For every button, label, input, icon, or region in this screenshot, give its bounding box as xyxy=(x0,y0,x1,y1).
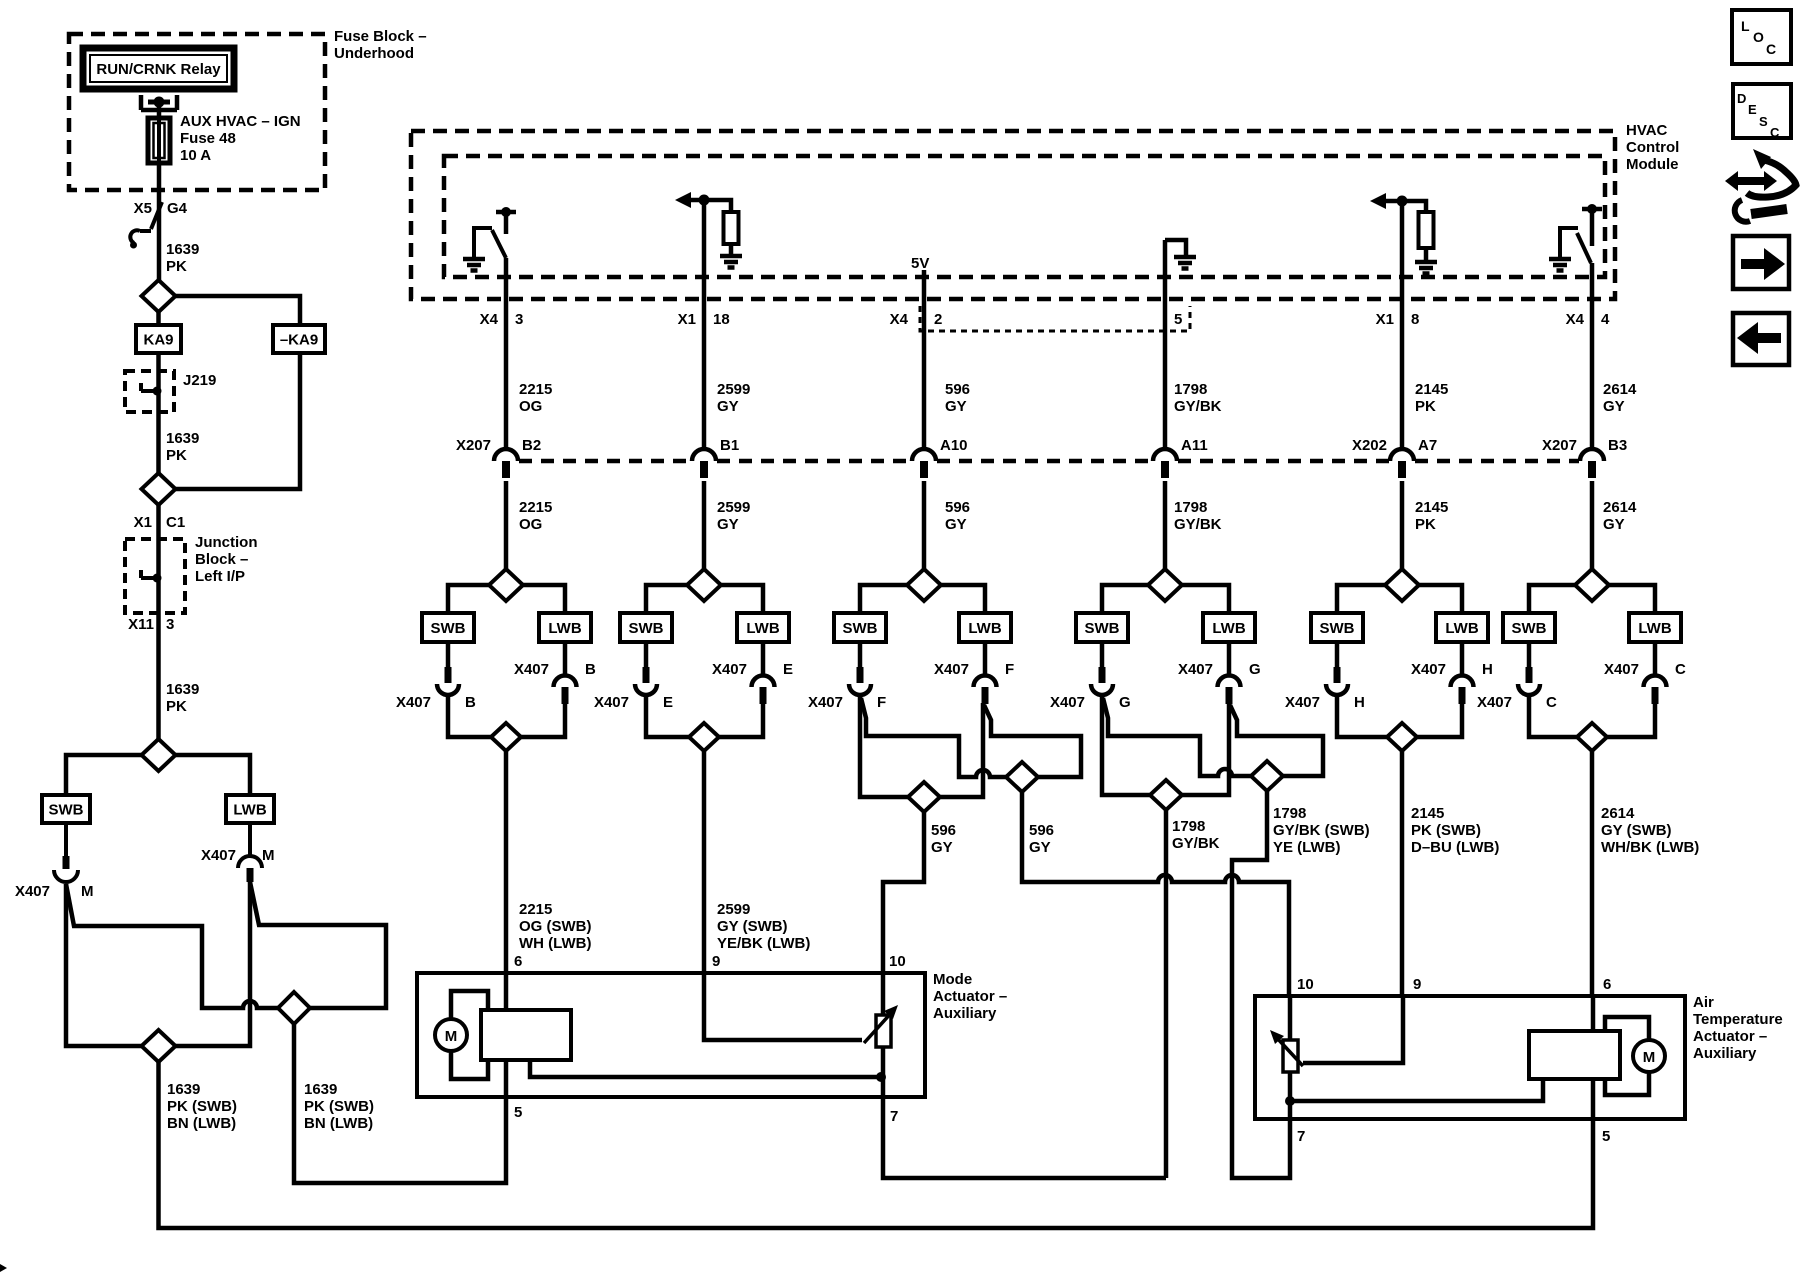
wire SWB-H to merge diamond col6 xyxy=(1337,694,1387,737)
connector X407-B SWB half xyxy=(446,642,451,667)
wire column 2 module to connector row xyxy=(504,258,509,451)
icon back arrow box xyxy=(1733,313,1789,365)
svg-text:WH (LWB): WH (LWB) xyxy=(519,935,591,952)
air temp gearbox low lead xyxy=(1290,1079,1543,1101)
svg-text:A11: A11 xyxy=(1181,437,1208,454)
split diamond column 5 xyxy=(1148,569,1182,601)
connector A11 arc xyxy=(1153,449,1177,461)
air temp pin 10 to pot xyxy=(1288,996,1293,1040)
svg-text:PK: PK xyxy=(166,698,187,715)
option LWB box col5 xyxy=(1203,613,1255,642)
svg-text:BN (LWB): BN (LWB) xyxy=(304,1115,373,1132)
wire split to LWB col5 xyxy=(1182,585,1229,613)
svg-text:4: 4 xyxy=(1601,311,1610,328)
merge diamond column 2 xyxy=(491,723,521,751)
wire 2599 to mode actuator pin 9 xyxy=(702,751,707,973)
svg-text:1639: 1639 xyxy=(167,1081,200,1098)
svg-text:X202: X202 xyxy=(1352,437,1387,454)
wire KA9 through J219 to splice S2 xyxy=(156,353,161,473)
svg-text:GY/BK: GY/BK xyxy=(1172,835,1220,852)
wire S4 to air temp actuator pin 5 xyxy=(159,1062,1594,1228)
mode motor M1 top lead xyxy=(451,991,488,1019)
split diamond column 6 xyxy=(1385,569,1419,601)
junction block tap symbol xyxy=(141,570,157,578)
svg-text:X11: X11 xyxy=(128,616,154,633)
svg-text:LWB: LWB xyxy=(746,620,779,637)
wire column 7 module to connector row xyxy=(1590,263,1595,451)
module switch X4-4 dot xyxy=(1587,204,1597,214)
module ground at X4-4 switch xyxy=(1549,259,1571,271)
wire split to SWB col7 xyxy=(1529,585,1575,613)
svg-text:LWB: LWB xyxy=(1212,620,1245,637)
svg-text:M: M xyxy=(262,847,275,864)
splice diamond S4 xyxy=(142,1030,176,1062)
svg-text:X1: X1 xyxy=(1376,311,1394,328)
svg-text:GY: GY xyxy=(931,839,953,856)
svg-text:LWB: LWB xyxy=(548,620,581,637)
svg-text:5V: 5V xyxy=(911,255,929,272)
svg-text:Left I/P: Left I/P xyxy=(195,568,245,585)
icon DESC box xyxy=(1733,84,1791,138)
wire split to SWB col6 xyxy=(1337,585,1385,613)
option SWB box col3 xyxy=(620,613,672,642)
svg-text:2145: 2145 xyxy=(1411,805,1444,822)
split diamond column 4 xyxy=(907,569,941,601)
relay contact fuse clip symbol xyxy=(141,95,177,110)
svg-text:GY: GY xyxy=(1029,839,1051,856)
wire L5 to mode actuator pin 7 node xyxy=(1164,810,1169,1178)
svg-text:–KA9: –KA9 xyxy=(280,332,318,349)
module switch X4-4 contact bracket xyxy=(1560,228,1578,257)
svg-text:X407: X407 xyxy=(712,661,747,678)
svg-text:HVAC: HVAC xyxy=(1626,122,1668,139)
splice diamond S5 xyxy=(278,992,310,1024)
connector X407-G LWB half xyxy=(1218,642,1241,687)
connector X407-C SWB half xyxy=(1527,642,1532,667)
svg-text:X407: X407 xyxy=(1285,694,1320,711)
wire column 6 module to connector row xyxy=(1400,201,1405,451)
svg-text:C: C xyxy=(1675,661,1686,678)
svg-text:1798: 1798 xyxy=(1174,499,1207,516)
option LWB box col6 xyxy=(1436,613,1488,642)
wire fuse F48 to splice S1 xyxy=(157,163,162,280)
mode actuator gearbox to pin 5 xyxy=(504,1060,509,1097)
svg-text:X407: X407 xyxy=(1050,694,1085,711)
svg-text:5: 5 xyxy=(1602,1128,1610,1145)
svg-text:Auxiliary: Auxiliary xyxy=(933,1005,997,1022)
svg-text:M: M xyxy=(81,883,94,900)
svg-text:Temperature: Temperature xyxy=(1693,1011,1783,1028)
mode actuator pin 9 to wiper xyxy=(704,973,862,1040)
mode actuator potentiometer xyxy=(876,1015,891,1047)
air temp actuator gearbox xyxy=(1529,1031,1620,1079)
svg-text:X407: X407 xyxy=(1604,661,1639,678)
svg-text:C1: C1 xyxy=(166,514,185,531)
svg-text:9: 9 xyxy=(712,953,720,970)
svg-text:8: 8 xyxy=(1411,311,1419,328)
svg-text:B: B xyxy=(585,661,596,678)
svg-text:X207: X207 xyxy=(1542,437,1577,454)
svg-text:LWB: LWB xyxy=(1445,620,1478,637)
wire column 6 connector to split diamond xyxy=(1400,481,1405,570)
option SWB box col2 xyxy=(422,613,474,642)
svg-text:2599: 2599 xyxy=(717,901,750,918)
svg-text:5: 5 xyxy=(514,1104,522,1121)
svg-text:1798: 1798 xyxy=(1273,805,1306,822)
svg-text:18: 18 xyxy=(713,311,730,328)
connector A7 arc xyxy=(1390,449,1414,461)
wire mode actuator pin 7 run xyxy=(883,1097,1166,1178)
svg-text:SWB: SWB xyxy=(1085,620,1120,637)
connector B3 arc xyxy=(1580,449,1604,461)
J219 tap symbol xyxy=(141,383,157,391)
wire LWB-E to merge diamond col3 xyxy=(719,703,763,737)
mode actuator pin6-pin5 through wire xyxy=(504,973,509,1010)
module ground pin 5 xyxy=(1174,257,1196,269)
svg-text:X407: X407 xyxy=(594,694,629,711)
svg-text:GY/BK: GY/BK xyxy=(1174,516,1222,533)
module ground at X4-3 switch xyxy=(463,259,485,271)
svg-text:X407: X407 xyxy=(201,847,236,864)
air temp pin 9 to wiper xyxy=(1303,996,1403,1063)
merge diamond column 3 xyxy=(689,723,719,751)
splice diamond S2 xyxy=(142,473,176,505)
module wire arrow to resistor X1-8 xyxy=(1383,201,1426,212)
svg-text:O: O xyxy=(1753,29,1764,45)
svg-text:5: 5 xyxy=(1174,311,1182,328)
fuse block underhood dashed box xyxy=(69,34,325,190)
svg-text:GY/BK: GY/BK xyxy=(1174,398,1222,415)
wire split to LWB col6 xyxy=(1419,585,1462,613)
option SWB box col4 xyxy=(834,613,886,642)
air temp gearbox to pin 5 xyxy=(1591,1079,1596,1119)
wire 2145 to air temp actuator pin 9 xyxy=(1400,751,1405,996)
connector X407-H LWB half xyxy=(1451,642,1474,687)
mode actuator gearbox xyxy=(481,1010,571,1060)
module switch X4-3 contact bracket xyxy=(474,228,492,257)
merge diamond U4 (596 GY) xyxy=(1006,762,1038,792)
wire U5 to air temp actuator pin 7 xyxy=(1232,791,1290,1178)
svg-text:596: 596 xyxy=(945,381,970,398)
module switch X4-3 lever xyxy=(492,230,506,258)
wire column 2 connector to split diamond xyxy=(504,481,509,570)
svg-text:1798: 1798 xyxy=(1172,818,1205,835)
connector X407-M SWB half xyxy=(64,823,68,856)
svg-text:H: H xyxy=(1354,694,1365,711)
svg-text:A10: A10 xyxy=(940,437,968,454)
wire LWB-M to splice S5 xyxy=(250,882,386,1008)
svg-text:7: 7 xyxy=(1297,1128,1305,1145)
wire column 3 connector to split diamond xyxy=(702,481,707,570)
svg-text:GY: GY xyxy=(717,398,739,415)
svg-text:X4: X4 xyxy=(480,311,499,328)
svg-text:GY: GY xyxy=(945,516,967,533)
merge diamond U5 (1798) xyxy=(1251,761,1283,791)
wire SWB-G to diamond U5 with hop xyxy=(1103,698,1251,776)
svg-text:2599: 2599 xyxy=(717,499,750,516)
connector X407-F SWB half xyxy=(858,642,863,667)
svg-text:G: G xyxy=(1249,661,1261,678)
wire -KA9 to splice S2 xyxy=(175,353,300,489)
connector row dashed line X207 xyxy=(519,459,1579,464)
wire SWB-F to diamond L4 xyxy=(860,694,908,797)
junction block dot xyxy=(153,574,162,583)
module ground below resistor X1-8 xyxy=(1415,262,1437,274)
svg-text:596: 596 xyxy=(931,822,956,839)
module ground elbow pin 5 xyxy=(1165,240,1186,256)
relay coil terminal KA9 box xyxy=(136,325,181,353)
wire column 5 connector to split diamond xyxy=(1163,481,1168,570)
option SWB box col6 xyxy=(1311,613,1363,642)
svg-text:LWB: LWB xyxy=(1638,620,1671,637)
svg-text:X1: X1 xyxy=(678,311,696,328)
wire SWB-M to splice S5 with hop xyxy=(66,884,278,1008)
svg-text:X207: X207 xyxy=(456,437,491,454)
svg-text:OG (SWB): OG (SWB) xyxy=(519,918,592,935)
svg-text:F: F xyxy=(877,694,886,711)
svg-text:2614: 2614 xyxy=(1603,381,1637,398)
air temp actuator auxiliary box xyxy=(1255,996,1685,1119)
wire LWB-H to merge diamond col6 xyxy=(1417,703,1462,737)
module arrow X1-18 xyxy=(675,192,691,208)
HVAC control module inner dashed box xyxy=(444,156,1605,277)
wire S3 to LWB box xyxy=(175,755,250,795)
merge diamond L4 (596 GY) xyxy=(908,782,940,812)
module resistor X1-8 lead xyxy=(1424,248,1429,262)
relay RUN/CRNK Relay box xyxy=(83,48,234,89)
merge diamond L5 (1798 GY/BK) xyxy=(1150,780,1182,810)
svg-text:PK: PK xyxy=(1415,516,1436,533)
svg-text:2215: 2215 xyxy=(519,499,552,516)
module switch driver output X4-3 xyxy=(496,210,516,215)
mode actuator pot to pin 7 xyxy=(881,1047,886,1097)
svg-text:X407: X407 xyxy=(808,694,843,711)
wire SWB-M to splice S4 xyxy=(66,884,142,1046)
svg-text:GY (SWB): GY (SWB) xyxy=(1601,822,1672,839)
svg-text:YE (LWB): YE (LWB) xyxy=(1273,839,1341,856)
air temp actuator motor M2 xyxy=(1633,1040,1665,1072)
wire split to LWB col3 xyxy=(721,585,763,613)
module switch X4-4 stem xyxy=(1590,209,1595,246)
wire split to SWB col5 xyxy=(1102,585,1148,613)
wire column 3 module to connector row xyxy=(702,199,707,451)
fuse F48 symbol xyxy=(148,118,170,163)
svg-text:X407: X407 xyxy=(514,661,549,678)
svg-text:B1: B1 xyxy=(720,437,739,454)
svg-text:X1: X1 xyxy=(134,514,152,531)
option LWB box col7 xyxy=(1629,613,1681,642)
svg-text:1639: 1639 xyxy=(166,681,199,698)
air temp pin6 into gearbox xyxy=(1591,996,1596,1031)
icon service squiggle xyxy=(1747,160,1796,197)
splice diamond S3 xyxy=(142,739,176,771)
module resistor X1-18 xyxy=(724,212,739,244)
split diamond column 7 xyxy=(1575,569,1609,601)
svg-text:PK: PK xyxy=(166,447,187,464)
svg-text:Module: Module xyxy=(1626,156,1679,173)
svg-text:SWB: SWB xyxy=(843,620,878,637)
svg-text:SWB: SWB xyxy=(49,802,84,819)
wire column 4 connector to split diamond xyxy=(922,481,927,570)
svg-text:H: H xyxy=(1482,661,1493,678)
wire split to SWB col4 xyxy=(860,585,907,613)
wire LWB-M to splice S4 xyxy=(175,882,250,1046)
svg-text:F: F xyxy=(1005,661,1014,678)
split diamond column 2 xyxy=(489,569,523,601)
wire column 7 connector to split diamond xyxy=(1590,481,1595,570)
module wire arrow to resistor X1-18 xyxy=(688,200,731,212)
svg-text:L: L xyxy=(1741,18,1750,34)
mode actuator junction dot xyxy=(876,1072,886,1082)
wire S2 through junction block to splice S3 xyxy=(156,505,161,739)
page corner tick xyxy=(0,1264,7,1272)
option LWB box 1639 xyxy=(226,795,274,823)
split diamond column 3 xyxy=(687,569,721,601)
svg-text:C: C xyxy=(1766,41,1776,57)
mode actuator pin 10 to pot xyxy=(881,973,886,1015)
junction block left IP dashed box xyxy=(125,539,185,613)
wire column 4 module to connector row xyxy=(922,270,927,451)
mode actuator gearbox low lead xyxy=(530,1060,883,1077)
air temp junction dot xyxy=(1285,1096,1295,1106)
svg-text:M: M xyxy=(445,1028,458,1045)
svg-text:G4: G4 xyxy=(167,200,188,217)
wire S1 to KA9 xyxy=(156,312,161,325)
svg-text:YE/BK (LWB): YE/BK (LWB) xyxy=(717,935,810,952)
svg-text:Control: Control xyxy=(1626,139,1679,156)
svg-text:C: C xyxy=(1770,125,1780,140)
connector B2 arc xyxy=(494,449,518,461)
svg-text:X407: X407 xyxy=(1411,661,1446,678)
wire LWB-F to diamond L4 xyxy=(940,703,983,797)
wire U4 to air temp actuator pin 10 with hops xyxy=(1022,792,1289,996)
svg-text:X4: X4 xyxy=(890,311,909,328)
svg-text:PK (SWB): PK (SWB) xyxy=(304,1098,374,1115)
option SWB box col5 xyxy=(1076,613,1128,642)
svg-text:Block –: Block – xyxy=(195,551,248,568)
svg-text:J219: J219 xyxy=(183,372,216,389)
svg-text:2599: 2599 xyxy=(717,381,750,398)
svg-text:Junction: Junction xyxy=(195,534,258,551)
svg-text:SWB: SWB xyxy=(1512,620,1547,637)
svg-text:2215: 2215 xyxy=(519,901,552,918)
svg-text:Actuator –: Actuator – xyxy=(1693,1028,1767,1045)
wire split to SWB col3 xyxy=(646,585,687,613)
air temp motor M2 bottom lead xyxy=(1605,1072,1649,1095)
wire LWB-F to diamond U4 xyxy=(984,705,1081,777)
svg-text:LWB: LWB xyxy=(233,802,266,819)
svg-text:3: 3 xyxy=(166,616,174,633)
svg-text:PK: PK xyxy=(1415,398,1436,415)
svg-text:E: E xyxy=(783,661,793,678)
svg-text:1639: 1639 xyxy=(304,1081,337,1098)
svg-text:E: E xyxy=(663,694,673,711)
svg-text:D: D xyxy=(1737,91,1746,106)
svg-text:X407: X407 xyxy=(15,883,50,900)
wire SWB-F to diamond U4 with hop xyxy=(861,698,1006,777)
svg-text:WH/BK (LWB): WH/BK (LWB) xyxy=(1601,839,1699,856)
svg-text:B2: B2 xyxy=(522,437,541,454)
wire SWB-B to merge diamond col2 xyxy=(448,694,491,737)
svg-text:2: 2 xyxy=(934,311,942,328)
svg-text:G: G xyxy=(1119,694,1131,711)
wire S1 to -KA9 xyxy=(175,296,300,325)
splice diamond S1 xyxy=(142,280,176,312)
option SWB box col7 xyxy=(1503,613,1555,642)
svg-text:GY: GY xyxy=(1603,398,1625,415)
svg-text:X407: X407 xyxy=(396,694,431,711)
module ground below resistor X1-18 xyxy=(720,256,742,268)
svg-text:596: 596 xyxy=(1029,822,1054,839)
module switch X4-4 lever xyxy=(1577,233,1591,263)
svg-text:6: 6 xyxy=(514,953,522,970)
svg-text:RUN/CRNK Relay: RUN/CRNK Relay xyxy=(96,61,221,78)
svg-text:PK (SWB): PK (SWB) xyxy=(167,1098,237,1115)
option LWB box col4 xyxy=(959,613,1011,642)
svg-text:GY/BK (SWB): GY/BK (SWB) xyxy=(1273,822,1370,839)
svg-text:1639: 1639 xyxy=(166,241,199,258)
connector X4 dashed outline xyxy=(920,306,1190,331)
svg-text:BN (LWB): BN (LWB) xyxy=(167,1115,236,1132)
wire split to SWB col2 xyxy=(448,585,489,613)
relay coil terminal -KA9 box xyxy=(273,325,325,353)
junction J219 dashed box xyxy=(125,371,174,412)
wire L4 to mode actuator pin 10 xyxy=(883,812,924,973)
svg-text:M: M xyxy=(1643,1049,1656,1066)
svg-text:10 A: 10 A xyxy=(180,147,211,164)
option LWB box col2 xyxy=(539,613,591,642)
svg-text:S: S xyxy=(1759,114,1768,129)
svg-text:GY: GY xyxy=(717,516,739,533)
svg-text:2614: 2614 xyxy=(1601,805,1635,822)
connector X407-B LWB half xyxy=(554,642,577,687)
svg-text:Actuator –: Actuator – xyxy=(933,988,1007,1005)
HVAC control module outer dashed box xyxy=(411,131,1615,299)
icon LOC box xyxy=(1732,10,1791,64)
wire LWB-C to merge diamond col7 xyxy=(1607,703,1655,737)
svg-text:LWB: LWB xyxy=(968,620,1001,637)
svg-text:6: 6 xyxy=(1603,976,1611,993)
svg-text:Air: Air xyxy=(1693,994,1714,1011)
merge diamond column 7 xyxy=(1577,723,1607,751)
module arrow X1-8 xyxy=(1370,193,1386,209)
svg-text:GY (SWB): GY (SWB) xyxy=(717,918,788,935)
svg-text:OG: OG xyxy=(519,398,542,415)
svg-text:D–BU (LWB): D–BU (LWB) xyxy=(1411,839,1499,856)
module X1-8 dot xyxy=(1397,196,1408,207)
connector X407-M LWB half xyxy=(238,823,262,868)
svg-text:Auxiliary: Auxiliary xyxy=(1693,1045,1757,1062)
svg-text:596: 596 xyxy=(945,499,970,516)
svg-text:Fuse Block –: Fuse Block – xyxy=(334,28,427,45)
svg-text:10: 10 xyxy=(889,953,906,970)
svg-text:1798: 1798 xyxy=(1174,381,1207,398)
wire relay contact to fuse F48 xyxy=(157,102,162,120)
svg-text:B3: B3 xyxy=(1608,437,1627,454)
module resistor X1-18 lead xyxy=(729,244,734,256)
svg-text:B: B xyxy=(465,694,476,711)
wire S5 to mode actuator pin 5 xyxy=(294,1024,506,1183)
mode actuator wiper arrow xyxy=(864,1012,892,1043)
svg-text:1639: 1639 xyxy=(166,430,199,447)
connector X407-E LWB half xyxy=(752,642,775,687)
option SWB box 1639 xyxy=(42,795,90,823)
wire column 5 module to connector row xyxy=(1163,240,1168,451)
connector B1 arc xyxy=(692,449,716,461)
svg-text:9: 9 xyxy=(1413,976,1421,993)
wire split to LWB col7 xyxy=(1609,585,1655,613)
connector X407-F LWB half xyxy=(974,642,997,687)
